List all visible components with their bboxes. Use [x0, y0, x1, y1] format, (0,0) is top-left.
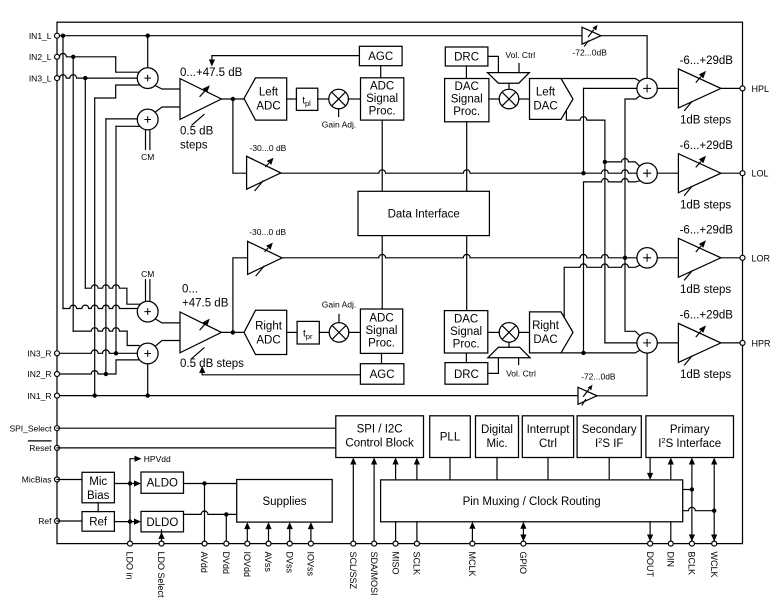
pin DOUT	[648, 541, 653, 546]
wire right PGA to ADC	[221, 331, 244, 333]
svg-text:0...: 0...	[182, 284, 198, 296]
wire MISO pinmux to pin	[395, 522, 397, 544]
node WCLK pinmux junction	[712, 509, 716, 513]
label pin MCLK	[467, 552, 477, 577]
pin IN3_R	[55, 351, 60, 356]
label Gain Adj left	[322, 109, 357, 130]
label pin Reset (active low)	[29, 441, 53, 453]
wire SDA/MOSI to control block	[371, 458, 377, 544]
node IN1_R junctions	[93, 393, 150, 397]
wire LDO_in riser / HPVdd	[130, 456, 142, 544]
block Data Interface	[358, 191, 489, 235]
node IN3_R junction	[114, 351, 118, 355]
pin DVdd	[224, 541, 229, 546]
pin MISO	[393, 541, 398, 546]
wire Left DAC bottom branch	[566, 110, 605, 120]
block Ref	[82, 512, 114, 532]
summing mixer HPL	[637, 78, 657, 98]
svg-text:DAC: DAC	[455, 81, 479, 93]
block ADC Signal Proc right	[360, 309, 402, 353]
block AGC right	[360, 364, 404, 385]
wire Digital Mic to pinmux	[496, 458, 498, 480]
svg-text:-30...0 dB: -30...0 dB	[249, 227, 286, 237]
block DLDO	[141, 511, 184, 532]
svg-text:steps: steps	[180, 140, 208, 152]
wire ALDO to Supplies	[184, 483, 237, 485]
svg-text:Mic.: Mic.	[486, 438, 507, 450]
wire IN3_R input	[57, 350, 137, 353]
label beep right gain	[581, 372, 616, 382]
summing mixer right PGA minus (CM)	[137, 301, 158, 322]
wire HPR amplifier to pin	[721, 342, 743, 344]
label pin DIN	[666, 552, 676, 568]
block Primary I2S Interface	[646, 416, 734, 458]
svg-text:-6...+29dB: -6...+29dB	[680, 310, 734, 322]
wire IN1_L to beep amp input	[57, 35, 582, 37]
pin GPIO	[521, 541, 526, 546]
wire LDO_Select to DLDO	[158, 530, 164, 544]
wire tpr to multiplier	[319, 331, 329, 333]
wire right PGA tap to bypass amp	[233, 258, 248, 333]
svg-text:LOR: LOR	[752, 253, 771, 263]
label LOL gain	[680, 140, 734, 152]
label pin SPI_Select	[9, 423, 52, 433]
svg-text:Left: Left	[536, 87, 556, 99]
wire multiplier to Right DAC	[519, 331, 530, 333]
label HPL steps	[680, 115, 731, 127]
label pin IN3_L	[29, 73, 52, 83]
amplifier left PGA 0..+47.5dB	[180, 79, 221, 125]
label LOR steps	[680, 284, 731, 296]
wire DRC right to volume ctrl	[488, 358, 499, 374]
node ALDO input junction	[128, 481, 132, 485]
wire SCLK pinmux to pin	[416, 522, 418, 544]
svg-text:Gain Adj.: Gain Adj.	[322, 299, 357, 309]
svg-text:DRC: DRC	[454, 369, 479, 381]
pin AVdd	[202, 541, 207, 546]
svg-text:GPIO: GPIO	[518, 552, 528, 575]
svg-text:MISO: MISO	[390, 552, 400, 575]
svg-text:HPR: HPR	[752, 338, 772, 348]
label pin IN1_R	[27, 391, 51, 401]
svg-text:Gain Adj.: Gain Adj.	[322, 119, 357, 129]
wire ADC bus left	[381, 120, 383, 191]
svg-text:Reset: Reset	[29, 443, 52, 453]
node LOL top feed	[603, 160, 607, 164]
pin IN1_R	[55, 393, 60, 398]
wire DIN pinmux to I2S	[668, 458, 674, 480]
block DAC Signal Proc left	[445, 79, 489, 122]
wire left mixer+ to PGA	[155, 86, 180, 90]
label LOL steps	[680, 200, 731, 212]
wire AGC right feedback	[199, 366, 360, 375]
block DAC Signal Proc right	[444, 311, 487, 353]
label pin BCLK	[687, 552, 697, 576]
svg-text:Proc.: Proc.	[368, 338, 395, 350]
volume control trapezoid right	[488, 347, 530, 358]
label left bypass gain	[250, 143, 287, 153]
label pin IN2_L	[29, 52, 52, 62]
label right PGA steps	[180, 358, 244, 370]
volume control trapezoid left	[488, 73, 530, 84]
wire IN3_L drop to right CM mixer	[85, 78, 140, 304]
wire WCLK	[711, 458, 717, 542]
pin Ref	[55, 519, 60, 524]
svg-text:Signal: Signal	[450, 326, 482, 338]
wire IN1_L feed to left mixer	[147, 36, 149, 68]
wire left PGA to ADC	[221, 98, 244, 100]
wire pinmux to WCLK stub	[683, 507, 715, 510]
svg-text:Right: Right	[532, 320, 560, 332]
block Mic Bias	[82, 472, 114, 503]
svg-text:1dB steps: 1dB steps	[680, 284, 731, 296]
wire LOR mixer bottom branch	[564, 264, 640, 318]
wire MISO control to pinmux	[393, 458, 399, 480]
summing mixer right PGA plus	[137, 343, 158, 364]
label left PGA steps	[180, 126, 214, 152]
block Secondary I2S IF	[577, 416, 641, 458]
wire DAC bus right	[466, 236, 468, 311]
svg-text:ADC: ADC	[256, 334, 280, 346]
node DLDO input junction	[128, 519, 132, 523]
svg-text:Ref: Ref	[38, 516, 52, 526]
label pin LOL	[752, 169, 769, 179]
amplifier beep right -72..0dB	[578, 385, 597, 405]
label HPL gain	[680, 55, 734, 67]
svg-text:DVss: DVss	[284, 552, 294, 574]
wire Mic Bias to Ref	[97, 503, 99, 512]
pin LOL	[740, 171, 745, 176]
wire to HPR mixer left	[605, 342, 637, 344]
svg-text:-6...+29dB: -6...+29dB	[680, 140, 734, 152]
svg-text:Mic: Mic	[89, 476, 107, 488]
wire AGC left feedback	[209, 56, 360, 67]
wire IOVss to Supplies	[308, 522, 314, 544]
label pin IOVdd	[242, 552, 252, 578]
svg-text:BCLK: BCLK	[687, 552, 697, 576]
summing mixer left PGA plus	[137, 68, 158, 89]
pin IOVdd	[245, 541, 250, 546]
wire IN1_L drop to right CM mixer	[63, 36, 137, 309]
block Digital Mic	[476, 416, 519, 458]
wire BCLK	[689, 458, 695, 542]
node AVdd junction	[202, 481, 206, 485]
wire right mixer to PGA	[155, 341, 180, 347]
label Vol Ctrl right	[506, 358, 536, 379]
svg-text:IN3_R: IN3_R	[27, 349, 51, 359]
svg-text:Right: Right	[255, 320, 283, 332]
wire MCLK to pinmux	[469, 522, 475, 544]
wire DVdd pin	[225, 514, 227, 543]
svg-text:LOL: LOL	[752, 169, 769, 179]
label pin LOR	[752, 253, 771, 263]
wire SCLK control to pinmux	[414, 458, 420, 480]
pin LDO Select	[159, 541, 164, 546]
svg-text:IN3_L: IN3_L	[29, 73, 52, 83]
svg-text:Digital: Digital	[481, 424, 513, 436]
label pin AVdd	[199, 552, 209, 573]
wire left PGA tap to bypass amp	[233, 99, 247, 173]
svg-text:Signal: Signal	[451, 94, 483, 106]
svg-text:Primary: Primary	[670, 424, 710, 436]
wire multiplier to Left DAC	[519, 98, 530, 100]
pin LDO in	[128, 541, 133, 546]
block tpr latency	[297, 321, 319, 344]
wire IN3_L input	[57, 75, 137, 78]
wire LOR to HPR mixer top	[625, 258, 640, 336]
node LOL line junction	[581, 171, 585, 175]
svg-text:0...+47.5 dB: 0...+47.5 dB	[180, 67, 243, 79]
label pin IOVss	[306, 552, 316, 577]
wire left lineout feed (LOL line)	[281, 170, 637, 173]
label pin DVss	[284, 552, 294, 574]
wire Reset to control block	[57, 447, 336, 449]
wire AGC right to ADC proc	[381, 353, 383, 363]
node left PGA output	[231, 97, 235, 101]
wire LOL mixer to amplifier	[657, 172, 678, 174]
label pin HPR	[752, 338, 772, 348]
label pin SCL/SSZ	[348, 552, 358, 590]
wire DLDO to Supplies	[184, 511, 237, 514]
svg-text:CM: CM	[141, 152, 154, 162]
wire left mixer- to PGA	[155, 107, 180, 112]
pin Reset	[55, 445, 60, 450]
pin DIN	[668, 541, 673, 546]
svg-text:AGC: AGC	[368, 51, 393, 63]
block ALDO	[141, 472, 184, 493]
block DRC right	[445, 363, 488, 385]
wire LOR mixer to amplifier	[657, 257, 678, 259]
block Left ADC	[244, 78, 287, 120]
block Interrupt Ctrl	[522, 416, 573, 458]
wire DAC bus left	[466, 122, 468, 192]
pin SCLK	[414, 541, 419, 546]
pin DVss	[287, 541, 292, 546]
wire DRC left to volume ctrl	[488, 56, 499, 72]
wire PLL to pinmux	[449, 458, 451, 480]
wire pinmux to BCLK stub	[683, 489, 692, 491]
svg-text:IOVss: IOVss	[306, 552, 316, 577]
block tpl latency	[296, 88, 317, 110]
svg-text:AVdd: AVdd	[199, 552, 209, 573]
svg-text:HPL: HPL	[752, 84, 770, 94]
node IN1_L junction	[61, 34, 150, 38]
svg-text:SCLK: SCLK	[412, 552, 422, 576]
block PLL	[430, 416, 471, 458]
block Right ADC	[244, 310, 287, 354]
wire DAC cross vertical	[604, 120, 606, 343]
label LOR gain	[680, 224, 734, 236]
label pin MicBias	[22, 475, 52, 485]
svg-text:-6...+29dB: -6...+29dB	[680, 224, 734, 236]
svg-text:1dB steps: 1dB steps	[680, 369, 731, 381]
wire IN1_R feed to right mixer	[147, 364, 149, 396]
svg-text:Interrupt: Interrupt	[527, 424, 571, 436]
svg-text:IN2_R: IN2_R	[27, 369, 51, 379]
label Gain Adj right	[322, 299, 357, 322]
wire MicBias pin to block	[57, 479, 82, 481]
wire to LOL mixer top	[605, 158, 640, 166]
wire AVdd pin	[204, 484, 206, 544]
svg-text:-72...0dB: -72...0dB	[581, 372, 616, 382]
wire right lineout feed (LOR line)	[282, 254, 637, 257]
pin LOR	[740, 255, 745, 260]
svg-text:DAC: DAC	[454, 313, 478, 325]
node Right DAC bottom junction	[581, 351, 585, 355]
pin SCL/SSZ	[351, 541, 356, 546]
label pin MISO	[390, 552, 400, 575]
wire HPL amplifier to pin	[721, 87, 743, 89]
label HPR gain	[680, 310, 734, 322]
wire tpl to multiplier	[318, 98, 329, 100]
pin HPL	[740, 86, 745, 91]
svg-text:DRC: DRC	[454, 52, 479, 64]
wire volume ctrl to multiplier left	[508, 83, 510, 89]
svg-text:DLDO: DLDO	[146, 517, 178, 529]
svg-text:DOUT: DOUT	[645, 552, 655, 578]
svg-text:WCLK: WCLK	[709, 552, 719, 578]
pin AVss	[266, 541, 271, 546]
svg-text:Signal: Signal	[366, 93, 398, 105]
label beep left gain	[572, 47, 607, 57]
multiplier left gain adjust	[329, 89, 349, 109]
wire IN3_R riser to left CM mixer	[116, 126, 140, 353]
node IN2_L junction	[71, 55, 75, 59]
svg-text:SCL/SSZ: SCL/SSZ	[348, 552, 358, 590]
wire HPR mixer to amplifier	[657, 342, 678, 344]
block Pin Muxing Clock Routing	[381, 480, 683, 522]
label pin SDA/MOSI	[369, 552, 379, 596]
pin BCLK	[689, 541, 694, 546]
svg-text:Secondary: Secondary	[582, 424, 637, 436]
svg-text:Pin Muxing / Clock Routing: Pin Muxing / Clock Routing	[463, 496, 601, 508]
wire LOL amplifier to pin	[721, 172, 743, 174]
svg-text:Control Block: Control Block	[345, 438, 414, 450]
wire multiplier to ADC proc right	[349, 331, 361, 333]
label pin IN3_R	[27, 349, 51, 359]
svg-text:+47.5 dB: +47.5 dB	[182, 298, 229, 310]
CM symbol right	[141, 269, 154, 301]
svg-text:1dB steps: 1dB steps	[680, 115, 731, 127]
node IN2_R junction	[104, 372, 108, 376]
wire ADC bus right	[381, 236, 383, 309]
svg-text:-72...0dB: -72...0dB	[572, 47, 607, 57]
wire IN2_R input	[57, 360, 139, 374]
svg-text:Left: Left	[259, 87, 279, 99]
label left PGA gain	[180, 67, 243, 79]
label pin GPIO	[518, 552, 528, 575]
svg-text:CM: CM	[141, 269, 154, 279]
block AGC left	[359, 46, 402, 65]
wire IN2_L drop to right mixer	[73, 57, 139, 346]
CM symbol left	[141, 130, 154, 162]
svg-text:IN1_L: IN1_L	[29, 31, 52, 41]
svg-text:LDO in: LDO in	[125, 552, 135, 580]
svg-text:ADC: ADC	[370, 81, 394, 93]
amplifier left bypass -30..0dB	[247, 156, 281, 190]
svg-text:Supplies: Supplies	[262, 496, 306, 508]
label right PGA gain	[182, 284, 229, 310]
pin HPR	[740, 340, 745, 345]
wire DRC right to DAC proc	[465, 353, 467, 363]
wire HPL mixer left branch	[584, 87, 637, 89]
svg-text:SPI / I2C: SPI / I2C	[357, 424, 403, 436]
node right PGA output	[231, 330, 235, 334]
wire DAC proc to multiplier right	[488, 331, 499, 333]
svg-text:0.5 dB: 0.5 dB	[180, 126, 214, 138]
svg-text:1dB steps: 1dB steps	[680, 200, 731, 212]
svg-text:Bias: Bias	[87, 490, 110, 502]
svg-text:Data Interface: Data Interface	[388, 208, 460, 220]
label pin SCLK	[412, 552, 422, 576]
pin IOVss	[308, 541, 313, 546]
amplifier LOL -6..+29dB	[678, 154, 721, 196]
multiplier right gain adjust	[329, 323, 349, 343]
label HPVdd	[144, 454, 171, 464]
svg-text:I2S Interface: I2S Interface	[658, 436, 721, 450]
summing mixer LOR	[637, 248, 657, 268]
multiplier right DAC volume	[499, 323, 519, 343]
svg-text:Signal: Signal	[366, 325, 398, 337]
block DRC left	[445, 47, 488, 66]
svg-text:DVdd: DVdd	[221, 552, 231, 575]
wire multiplier to ADC proc	[348, 98, 360, 100]
wire IN2_L input	[57, 53, 139, 72]
pin IN1_L	[55, 33, 60, 38]
label pin Ref	[38, 516, 52, 526]
block SPI I2C Control Block	[336, 416, 424, 458]
svg-text:DIN: DIN	[666, 552, 676, 568]
wire Ref pin to block	[57, 520, 82, 522]
label HPR steps	[680, 369, 731, 381]
wire IN1_R to beep amp input	[57, 395, 578, 397]
svg-text:SDA/MOSI: SDA/MOSI	[369, 552, 379, 596]
outer border frame	[57, 22, 743, 543]
label pin IN2_R	[27, 369, 51, 379]
svg-text:Ref: Ref	[89, 517, 108, 529]
wire ADC to tpl	[287, 98, 297, 100]
wire IOVdd to Supplies	[244, 522, 250, 544]
node IN3_L junction	[83, 76, 87, 80]
label pin IN1_L	[29, 31, 52, 41]
amplifier LOR -6..+29dB	[678, 238, 721, 280]
wire HPL mixer to amplifier	[657, 87, 678, 89]
svg-text:Proc.: Proc.	[369, 106, 396, 118]
wire Mic Bias to ALDO	[114, 480, 141, 486]
wire SPI_Select to control block	[57, 427, 336, 429]
svg-text:HPVdd: HPVdd	[144, 454, 171, 464]
wire SCL/SSZ to control block	[350, 458, 356, 544]
block Left DAC	[530, 79, 574, 120]
svg-text:AGC: AGC	[370, 369, 395, 381]
wire DOUT pinmux to pin	[647, 522, 653, 542]
wire AVss to Supplies	[265, 522, 271, 544]
block Right DAC	[530, 312, 574, 353]
svg-text:Proc.: Proc.	[453, 338, 480, 350]
wire IN1_R riser to left mixer	[95, 85, 140, 396]
svg-text:AVss: AVss	[263, 552, 273, 573]
pin MCLK	[470, 541, 475, 546]
label pin HPL	[752, 84, 770, 94]
svg-text:Vol. Ctrl: Vol. Ctrl	[506, 369, 536, 379]
pin IN2_L	[55, 54, 60, 59]
node DVdd junction	[224, 512, 228, 516]
wire GPIO to pinmux	[520, 522, 526, 542]
wire Secondary I2S to pinmux	[608, 458, 610, 480]
svg-text:DAC: DAC	[533, 101, 557, 113]
amplifier HPR -6..+29dB	[678, 323, 721, 365]
svg-text:Proc.: Proc.	[453, 106, 480, 118]
